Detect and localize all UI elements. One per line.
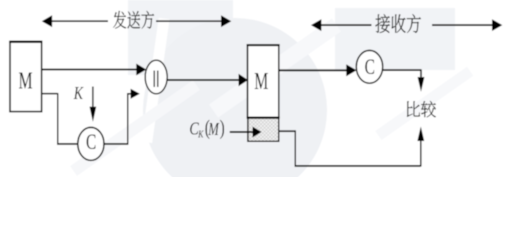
svg-text:C: C <box>365 55 375 79</box>
svg-text:M: M <box>207 120 219 140</box>
svg-text:K: K <box>197 129 204 140</box>
svg-text:M: M <box>18 68 32 94</box>
svg-text:): ) <box>220 116 225 140</box>
svg-text:C: C <box>86 130 96 154</box>
svg-text:M: M <box>254 69 268 95</box>
svg-text:K: K <box>73 84 84 103</box>
